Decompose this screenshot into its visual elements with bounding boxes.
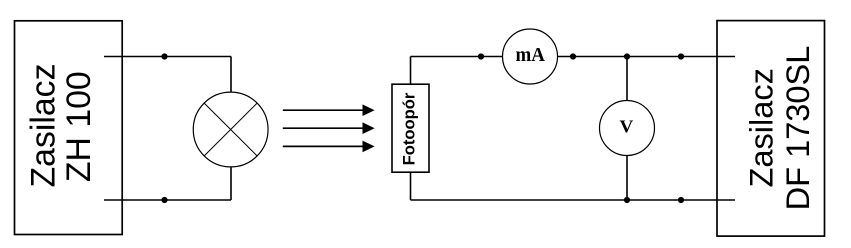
wire: voltmeter branch down from top wire: [626, 57, 628, 101]
svg-text:DF 1730SL: DF 1730SL: [779, 46, 816, 211]
light ray arrow 3: [283, 141, 375, 153]
wire: vertical up to lamp bottom: [230, 168, 232, 201]
svg-text:ZH 100: ZH 100: [60, 71, 98, 182]
wire: vertical down to lamp top: [230, 57, 232, 93]
svg-text:Zasilacz: Zasilacz: [742, 68, 779, 187]
power supply box PS2 "Zasilacz DF 1730SL": [717, 21, 825, 237]
power supply box PS1 "Zasilacz ZH 100": [15, 21, 123, 235]
node: junction dot on PS1 top wire: [161, 53, 167, 59]
node: junction dot at voltmeter branch (top): [624, 53, 630, 59]
ammeter M1 "mA": [503, 29, 558, 84]
photoresistor R1 "Fotoopór" box: [392, 84, 429, 172]
wire: voltmeter branch down to bottom wire: [626, 156, 628, 201]
svg-text:V: V: [620, 117, 634, 137]
wire: top horizontal from ammeter to PS2: [558, 56, 736, 58]
voltmeter M2 "V": [600, 101, 655, 156]
node: junction dot at voltmeter branch (bottom): [624, 197, 630, 203]
lamp L1 (circle with X): [193, 92, 268, 167]
wire: PS1 bottom terminal horizontal: [104, 199, 231, 201]
wire: top horizontal to ammeter: [411, 56, 503, 58]
light ray arrow 2: [283, 122, 375, 134]
svg-text:Zasilacz: Zasilacz: [25, 64, 63, 188]
node: junction dot after ammeter: [570, 53, 576, 59]
light ray arrow 1: [283, 104, 375, 116]
wire: PS1 top terminal horizontal: [104, 56, 231, 58]
wire: photoresistor bottom vertical: [410, 172, 412, 200]
node: junction dot before ammeter: [478, 53, 484, 59]
svg-text:mA: mA: [516, 44, 546, 66]
svg-text:Fotoopór: Fotoopór: [400, 92, 419, 165]
wire: photoresistor top vertical: [410, 57, 412, 85]
node: junction dot on top wire near PS2: [678, 53, 684, 59]
wire: bottom horizontal to PS2: [411, 199, 736, 201]
node: junction dot on bottom wire near PS2: [678, 197, 684, 203]
node: junction dot on PS1 bottom wire: [161, 197, 167, 203]
